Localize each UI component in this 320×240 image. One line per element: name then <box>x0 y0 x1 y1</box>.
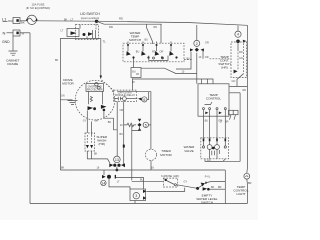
svg-text:OR: OR <box>95 120 99 123</box>
temp control light L1 <box>244 173 250 179</box>
svg-text:BK: BK <box>108 121 112 124</box>
svg-text:BK: BK <box>211 186 215 189</box>
wire right arm drop <box>202 50 204 59</box>
svg-text:MOTOR: MOTOR <box>160 153 172 157</box>
svg-text:14: 14 <box>101 181 105 185</box>
svg-text:SWITCH: SWITCH <box>201 200 213 204</box>
svg-text:GY: GY <box>184 180 188 183</box>
link motor to relay <box>102 80 114 91</box>
svg-text:GN: GN <box>61 95 65 98</box>
svg-text:LIGHT: LIGHT <box>236 192 245 196</box>
contact pair node4 <box>236 40 246 74</box>
node 5 <box>143 122 148 127</box>
motor terminals <box>95 83 100 90</box>
water level switch S4 <box>196 182 225 191</box>
svg-text:BU: BU <box>136 51 140 54</box>
wire circle4 stub <box>237 26 239 31</box>
svg-text:L1: L1 <box>2 17 7 22</box>
svg-text:OR: OR <box>218 120 222 123</box>
connector on N <box>13 30 20 36</box>
relay box P <box>149 56 168 61</box>
wire W2 drops to temp control <box>202 79 208 84</box>
fuse label <box>26 2 50 9</box>
wire lower to box3 <box>109 179 130 189</box>
wire right border <box>246 25 249 203</box>
svg-text:BK: BK <box>61 166 65 169</box>
super wash switch <box>85 133 95 151</box>
svg-text:(HR): (HR) <box>99 142 106 146</box>
drive motor label <box>62 78 74 86</box>
contact pair node2 <box>190 48 204 52</box>
svg-text:W: W <box>22 31 25 35</box>
motor harness box <box>60 39 102 171</box>
wire W1 <box>141 68 197 73</box>
svg-text:RD: RD <box>119 16 123 20</box>
node 6 <box>142 97 147 102</box>
wire left arm drop <box>176 52 191 69</box>
svg-text:CONTROL: CONTROL <box>206 97 221 101</box>
svg-text:BK: BK <box>64 19 68 22</box>
rinse switch S3 <box>163 178 177 187</box>
svg-text:6: 6 <box>143 98 145 102</box>
fuse F1 <box>26 15 37 24</box>
overload protector <box>86 84 104 92</box>
wire level switch drop <box>224 170 226 204</box>
svg-text:BU: BU <box>132 70 136 73</box>
wire right top link <box>230 85 248 87</box>
node 13 <box>114 156 121 163</box>
timer motor M2 <box>145 149 156 170</box>
svg-text:OR: OR <box>205 56 209 59</box>
svg-text:RD: RD <box>243 89 247 92</box>
wire rinse <box>132 180 164 182</box>
lid switch S1 <box>67 22 99 40</box>
wire W2 <box>133 79 214 84</box>
temp control U1 <box>198 84 229 116</box>
wire to fuse <box>20 20 27 22</box>
svg-text:TL: TL <box>103 39 107 43</box>
wire N lead <box>7 32 14 34</box>
start relay box <box>114 90 137 101</box>
connector box Q <box>131 68 141 78</box>
terminal N <box>3 30 6 35</box>
wire relay bottom drops <box>117 101 124 165</box>
svg-text:PROTECTOR: PROTECTOR <box>87 89 103 92</box>
wire box3 to switch <box>147 188 185 192</box>
temp cont switch box <box>231 42 247 86</box>
temp cont switch label <box>218 55 230 70</box>
svg-text:SWITCH: SWITCH <box>129 38 141 42</box>
svg-text:BK: BK <box>55 59 59 62</box>
resistor R1 <box>124 123 136 127</box>
water valve V1 <box>201 138 229 159</box>
svg-text:OR: OR <box>205 41 209 44</box>
wire to ground <box>12 36 14 51</box>
wire bottom border <box>30 203 247 205</box>
terminal L1 <box>2 17 8 22</box>
node 2 <box>194 40 200 46</box>
wire right second link <box>230 92 241 94</box>
wire contact1 down <box>133 59 135 68</box>
svg-text:6-RINSE (HR): 6-RINSE (HR) <box>161 174 179 178</box>
wire right drop <box>223 93 240 162</box>
svg-text:RD: RD <box>154 26 158 29</box>
node junction dot <box>95 20 98 23</box>
water temp switch S2 <box>123 42 184 62</box>
temp control light label <box>233 185 248 196</box>
motor internal wires <box>87 91 117 135</box>
svg-text:GND: GND <box>2 40 10 44</box>
svg-text:(IF SO EQUIPPED): (IF SO EQUIPPED) <box>26 6 50 10</box>
feed drop <box>160 24 162 43</box>
svg-text:OR: OR <box>120 109 124 112</box>
svg-text:OR: OR <box>160 51 164 54</box>
svg-text:RD: RD <box>152 51 156 54</box>
wire relay top to timer motor <box>117 92 151 149</box>
wire to node 14 <box>104 170 144 189</box>
node diamond <box>138 123 142 127</box>
wire rinse to switch <box>176 185 196 189</box>
node 3 <box>133 193 139 199</box>
node 4 <box>235 31 241 37</box>
svg-text:BK: BK <box>21 21 25 25</box>
svg-text:LT: LT <box>61 30 64 33</box>
wire rinse feed <box>131 125 133 181</box>
connector on L1 <box>13 18 20 24</box>
lid switch label <box>80 12 100 20</box>
wire W2 drop <box>132 78 134 90</box>
svg-text:P-VL: P-VL <box>205 176 211 179</box>
contact cluster 13 <box>109 163 125 170</box>
capacitor C1 <box>114 97 138 101</box>
svg-text:VALVE: VALVE <box>184 149 194 153</box>
svg-text:RD: RD <box>109 25 113 29</box>
wire L1 bus top <box>37 21 248 26</box>
wire node6 right <box>147 92 149 100</box>
svg-text:LT: LT <box>117 181 120 184</box>
svg-text:GY: GY <box>83 120 87 123</box>
wire node5 right <box>149 124 151 126</box>
ground motor <box>60 100 77 105</box>
contact cluster 14 <box>102 175 116 179</box>
svg-text:BR: BR <box>218 186 222 189</box>
motor connector box <box>130 189 146 204</box>
dashed link to temp cont switch <box>210 58 232 60</box>
svg-text:GN: GN <box>239 57 243 60</box>
svg-text:BU: BU <box>205 120 209 123</box>
timer motor label <box>160 149 172 157</box>
contact arrow <box>138 119 141 122</box>
ground cabinet <box>9 51 18 55</box>
svg-text:4: 4 <box>237 33 239 37</box>
valve bottom loop <box>205 159 226 162</box>
svg-text:MOTOR: MOTOR <box>62 82 74 86</box>
water valve label <box>184 145 196 153</box>
tick on wire <box>123 145 125 148</box>
wire branch to water temp switch <box>97 21 162 24</box>
svg-text:(open position): (open position) <box>81 16 100 20</box>
dashed link <box>184 59 193 61</box>
svg-text:RD: RD <box>239 51 243 54</box>
wire super wash out <box>87 151 110 163</box>
drive motor M1 <box>75 80 115 120</box>
svg-text:(HR): (HR) <box>221 66 228 70</box>
wire circle2 drop <box>196 25 198 84</box>
feed diagonal into switch <box>147 24 153 44</box>
wire L1 lead <box>8 20 13 22</box>
node dot bus <box>116 169 119 172</box>
svg-text:FRAME: FRAME <box>7 62 18 66</box>
svg-text:GN: GN <box>232 80 236 83</box>
svg-text:N: N <box>3 30 6 35</box>
svg-text:2: 2 <box>196 42 198 46</box>
svg-text:BU: BU <box>120 133 124 136</box>
water temp switch label <box>129 31 141 42</box>
svg-text:BR: BR <box>248 182 252 185</box>
wire left border <box>29 33 31 204</box>
super wash label <box>96 135 107 146</box>
connector box R <box>229 110 239 119</box>
svg-text:13: 13 <box>115 158 119 162</box>
svg-text:3: 3 <box>135 194 137 198</box>
svg-text:BU: BU <box>140 178 144 181</box>
svg-text:BU: BU <box>187 58 191 61</box>
label cabinet frame <box>6 58 20 66</box>
svg-text:BU: BU <box>145 38 149 41</box>
wire N to left border <box>20 32 30 34</box>
node arrow <box>138 98 141 101</box>
main bottom bus <box>60 169 225 171</box>
node 14 <box>101 180 106 185</box>
svg-text:LT: LT <box>71 19 74 22</box>
valve feeds <box>204 116 226 138</box>
svg-text:BK: BK <box>94 153 98 156</box>
svg-text:5: 5 <box>145 123 147 127</box>
water level switch label <box>196 193 218 204</box>
